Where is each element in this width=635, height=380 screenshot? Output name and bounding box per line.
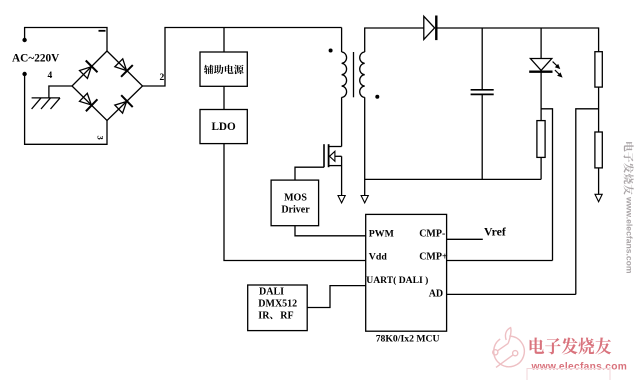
svg-text:CMP-: CMP- bbox=[419, 229, 445, 240]
MCU box 78K0/Ix2 bbox=[366, 214, 447, 331]
resistor R1 (divider top) bbox=[595, 52, 602, 87]
resistor R2 (divider bottom) bbox=[595, 132, 602, 168]
node: divider tap to AD bbox=[576, 109, 599, 295]
wire: DALI box to MCU UART bbox=[307, 286, 366, 308]
DALI/DMX512/IR-RF interface box bbox=[248, 285, 308, 331]
wire: MOS driver to MCU PWM bbox=[295, 226, 366, 236]
primary polarity dot bbox=[329, 49, 333, 53]
wire: output top rail bbox=[436, 28, 598, 52]
wire: LED cathode down bbox=[540, 72, 542, 121]
output rectifier diode D5 bbox=[424, 16, 435, 39]
watermark text 电子发烧友 bbox=[530, 338, 612, 355]
MOSFET Q1 bbox=[323, 144, 325, 167]
bridge pin label 3 (rotated) bbox=[96, 136, 106, 140]
svg-text:DALI: DALI bbox=[259, 287, 284, 298]
auxiliary power box 辅助电源 bbox=[200, 52, 247, 86]
wire: aux supply to LDO bbox=[223, 86, 225, 109]
chassis ground symbol bbox=[32, 97, 60, 99]
wire: bridge pin4 to chassis ground bbox=[49, 86, 72, 98]
right edge vertical watermark url bbox=[625, 196, 635, 274]
wire: top rail to aux supply bbox=[223, 28, 225, 53]
wire: MOSFET source to ground bbox=[341, 156, 343, 195]
AC terminal dot (neutral) bbox=[22, 72, 26, 76]
AC terminal dot (live) bbox=[22, 38, 26, 42]
right edge vertical watermark 电子发烧友 bbox=[624, 142, 634, 195]
resistor R3 (LED current sense) bbox=[537, 121, 545, 158]
wire: top rail into primary winding bbox=[341, 28, 343, 53]
secondary polarity dot bbox=[375, 95, 379, 99]
ground arrow (secondary) bbox=[361, 196, 368, 203]
bridge diode D4 (bottom->right) bbox=[113, 95, 133, 115]
svg-text:LDO: LDO bbox=[211, 121, 236, 133]
wire: R3 to bottom rail bbox=[540, 157, 542, 179]
svg-text:3: 3 bbox=[96, 136, 106, 140]
svg-text:MOS: MOS bbox=[284, 193, 307, 204]
LDO box bbox=[200, 110, 247, 144]
svg-text:www.elecfans.com: www.elecfans.com bbox=[531, 361, 628, 372]
bridge diode D1 (left->top) bbox=[78, 61, 98, 81]
wire: gate to MOS driver bbox=[295, 167, 324, 180]
node: LED sense tap bbox=[541, 109, 552, 261]
svg-text:AC~220V: AC~220V bbox=[12, 52, 60, 64]
LED D6 bbox=[530, 59, 551, 71]
wire: bridge pin2 up to DC+ top rail bbox=[143, 28, 342, 87]
wire: secondary top to output rail bbox=[365, 28, 424, 52]
wire: AC live terminal to bridge pin1 bbox=[25, 28, 107, 52]
svg-text:IR: IR bbox=[258, 310, 270, 321]
svg-text:Driver: Driver bbox=[281, 205, 310, 216]
wire: CMP+ to LED tap bbox=[447, 260, 553, 262]
wire: rail to LED bbox=[540, 28, 542, 59]
svg-text:PWM: PWM bbox=[369, 229, 394, 240]
transformer secondary winding bbox=[360, 52, 365, 97]
LED emission arrows bbox=[553, 62, 563, 78]
wire: AD to divider tap bbox=[447, 293, 576, 295]
wire: cap to bottom rail bbox=[481, 94, 483, 179]
bottom rail wire bbox=[365, 178, 541, 180]
svg-text:www.elecfans.com: www.elecfans.com bbox=[625, 196, 635, 274]
wire: secondary bottom to ground bbox=[364, 97, 366, 195]
wire: CMP- to Vref bbox=[447, 238, 483, 240]
svg-text:RF: RF bbox=[280, 310, 293, 321]
wire: AC neutral down and right to bridge pin3 bbox=[25, 75, 107, 144]
bridge pin label 1 (rotated) bbox=[99, 30, 106, 32]
svg-text:AD: AD bbox=[429, 288, 443, 299]
transformer core bbox=[353, 52, 355, 97]
svg-text:2: 2 bbox=[160, 73, 165, 83]
filter capacitor C1 bbox=[471, 89, 494, 91]
svg-text:UART( DALI ): UART( DALI ) bbox=[366, 275, 428, 286]
ground arrow (divider) bbox=[595, 194, 602, 201]
watermark frame bbox=[527, 369, 610, 380]
wire: primary bottom to MOSFET drain bbox=[341, 97, 343, 146]
wire: LDO to MCU Vdd bbox=[224, 144, 366, 261]
wire: rail to filter cap bbox=[481, 28, 483, 90]
bridge diode D2 (top->right) bbox=[113, 57, 133, 77]
ground arrow (MOSFET source) bbox=[338, 196, 345, 203]
watermark logo bbox=[493, 328, 525, 368]
wire: R1 to R2 bbox=[598, 87, 600, 132]
svg-text:Vref: Vref bbox=[484, 225, 507, 239]
transformer primary winding bbox=[342, 52, 347, 97]
MOS Driver box U2 bbox=[271, 180, 319, 226]
svg-text:Vdd: Vdd bbox=[369, 252, 388, 263]
svg-text:CMP+: CMP+ bbox=[419, 252, 448, 263]
wire: R2 to ground bbox=[598, 168, 600, 194]
bridge diode D3 (left->bottom) bbox=[78, 91, 98, 111]
svg-text:4: 4 bbox=[48, 71, 53, 81]
svg-text:DMX512: DMX512 bbox=[258, 299, 297, 310]
svg-text:78K0/Ix2 MCU: 78K0/Ix2 MCU bbox=[376, 333, 440, 344]
bridge rectifier diamond wires bbox=[72, 51, 143, 121]
